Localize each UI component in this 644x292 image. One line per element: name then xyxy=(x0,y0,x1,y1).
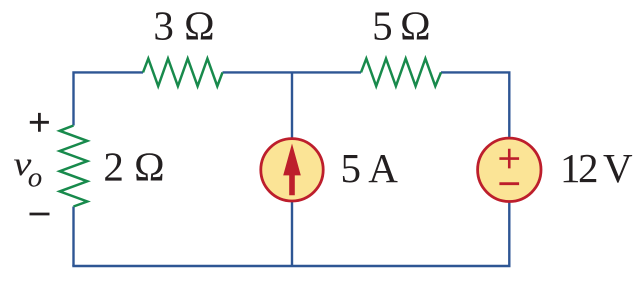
wire: middle branch top (node B down to current source) xyxy=(291,72,293,138)
wire: left branch top (node A to 2-ohm resistor top) xyxy=(74,72,144,125)
polarity minus for v_o xyxy=(30,213,50,216)
wire: top middle segment between 3-ohm and 5-ohm resistors xyxy=(223,71,362,73)
wire: right branch bottom (voltage source to bottom rail) xyxy=(508,202,510,267)
svg-text:o: o xyxy=(28,162,43,194)
voltage source V1 (12 V) circle xyxy=(478,138,541,201)
wire: top right corner segment into right branch xyxy=(441,72,509,137)
svg-text:12 V: 12 V xyxy=(560,145,633,191)
voltage source minus mark xyxy=(499,182,519,185)
resistor 2-ohm (vertical, left branch) xyxy=(60,126,88,207)
resistor 5-ohm (horizontal, top right) xyxy=(361,59,441,87)
wire: left branch bottom (2-ohm resistor to bottom rail) xyxy=(72,207,74,267)
svg-text:5 A: 5 A xyxy=(340,145,398,191)
wire: bottom rail xyxy=(72,265,510,267)
voltage source plus mark xyxy=(499,149,519,169)
resistor 3-ohm (horizontal, top left) xyxy=(143,59,223,87)
wire: middle branch bottom (current source to bottom rail) xyxy=(291,202,293,267)
svg-text:5 Ω: 5 Ω xyxy=(372,3,429,49)
current source arrow (points up) xyxy=(283,144,301,196)
svg-text:3 Ω: 3 Ω xyxy=(153,3,214,49)
current source I1 (5 A) circle xyxy=(261,139,323,201)
polarity plus for v_o xyxy=(30,113,49,132)
svg-text:2 Ω: 2 Ω xyxy=(103,144,164,190)
